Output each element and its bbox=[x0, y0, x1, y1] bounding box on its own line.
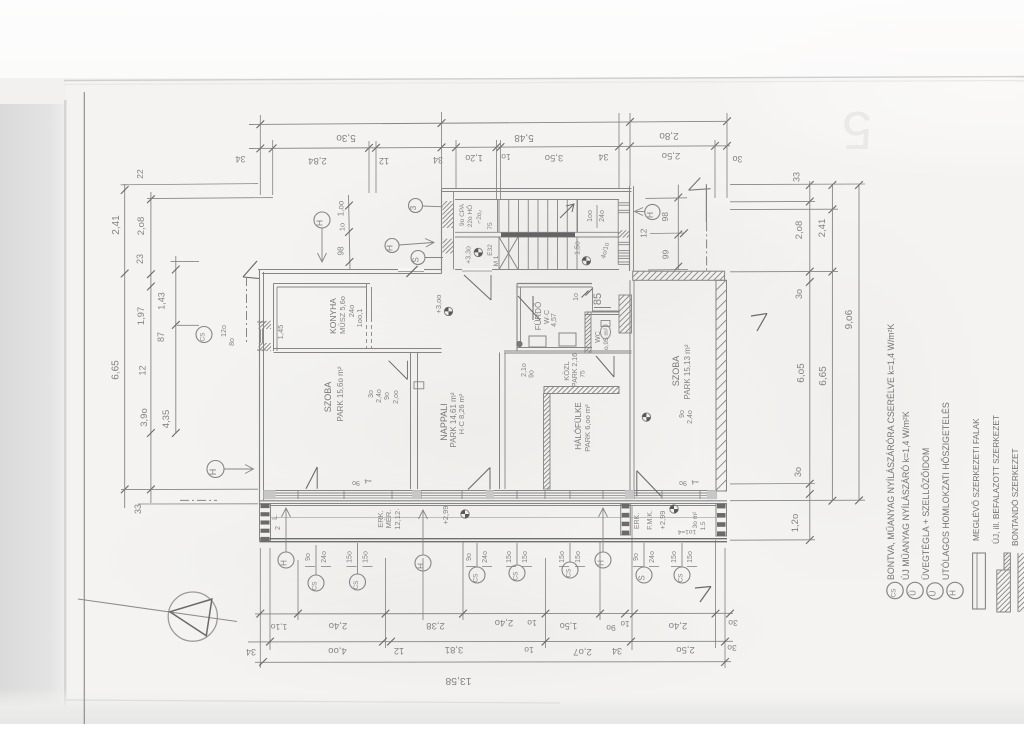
svg-text:=4: =4 bbox=[364, 477, 372, 484]
svg-text:H: H bbox=[949, 590, 958, 596]
bottom dimension row 3 total line bbox=[255, 661, 731, 664]
top dims witness lines bbox=[259, 115, 261, 195]
kitchen inner wall right + dashed opening bbox=[366, 284, 368, 319]
svg-text:S: S bbox=[412, 257, 421, 262]
svg-text:2,41: 2,41 bbox=[111, 215, 122, 235]
svg-text:+3,oo: +3,oo bbox=[434, 295, 443, 314]
svg-text:2,o7: 2,o7 bbox=[573, 646, 592, 657]
dash-dot segment left of balcony bbox=[180, 499, 217, 501]
marker H with right arrow left side bbox=[207, 461, 224, 478]
svg-text:98: 98 bbox=[660, 212, 670, 222]
svg-text:4,35: 4,35 bbox=[161, 410, 172, 429]
right dimension line 1 bbox=[809, 181, 811, 540]
svg-text:CS: CS bbox=[891, 588, 898, 598]
svg-text:1oo: 1oo bbox=[587, 210, 594, 222]
marker CS bottom x357.5 bbox=[350, 574, 366, 590]
svg-text:98: 98 bbox=[337, 246, 346, 255]
level dot stairs left +3,30 bbox=[474, 248, 482, 256]
wall stub below kitchen door bbox=[414, 382, 424, 389]
paper bottom edge shadow bbox=[66, 700, 560, 703]
paper top edge bbox=[64, 77, 1024, 81]
svg-text:2,38: 2,38 bbox=[426, 620, 445, 631]
stair block right wall bbox=[629, 186, 631, 271]
svg-text:H: H bbox=[385, 245, 395, 251]
svg-text:2,oo: 2,oo bbox=[393, 390, 400, 404]
stair bottom door opening and swing bbox=[462, 268, 492, 270]
marker CS bottom x682 bbox=[674, 567, 690, 583]
svg-text:34: 34 bbox=[598, 152, 608, 162]
window mullions bottom band bbox=[297, 490, 299, 499]
section dash-dot line left bbox=[246, 277, 248, 345]
living room right wall bbox=[499, 353, 501, 490]
svg-text:15o: 15o bbox=[671, 551, 678, 563]
svg-text:MÉR.: MÉR. bbox=[384, 510, 393, 529]
svg-text:CS: CS bbox=[312, 581, 319, 591]
balcony mid hatched pier bbox=[621, 504, 631, 535]
svg-text:1o: 1o bbox=[527, 618, 537, 628]
section arrow right-middle bbox=[751, 314, 767, 317]
marker CS bottom x316 bbox=[308, 575, 324, 591]
bottom outer wall edge (double) bbox=[260, 500, 728, 502]
marker H with down arrow near entry bbox=[314, 212, 330, 228]
balcony floor lines bbox=[271, 505, 717, 507]
left dim B ticks bbox=[147, 195, 155, 203]
stair right room labels bbox=[596, 205, 598, 228]
svg-text:15o: 15o bbox=[522, 551, 529, 563]
svg-text:9o: 9o bbox=[529, 370, 536, 378]
stair block top wall bbox=[442, 188, 632, 190]
svg-text:ÜVEGTÉGLA + SZELLŐZŐIDOM: ÜVEGTÉGLA + SZELLŐZŐIDOM bbox=[921, 448, 931, 580]
top-right thick hatched wall band bbox=[633, 271, 725, 280]
stair steps upper flight bbox=[498, 200, 500, 233]
svg-text:6,65: 6,65 bbox=[111, 360, 122, 380]
svg-text:1o: 1o bbox=[573, 293, 580, 301]
svg-text:3o: 3o bbox=[727, 643, 737, 653]
svg-text:15o: 15o bbox=[363, 551, 370, 563]
svg-text:MŰSZ 5,6o: MŰSZ 5,6o bbox=[338, 296, 347, 334]
door triangle nappali-balcony bbox=[468, 468, 490, 490]
legend circle U2 bbox=[927, 583, 943, 599]
marker CS bottom x570 bbox=[562, 562, 578, 578]
north arrow triangle bbox=[170, 599, 212, 636]
marker H bottom x286 bbox=[278, 552, 294, 568]
bottom dimension row 1 line bbox=[255, 612, 733, 615]
marker H bottom x423 bbox=[415, 555, 431, 571]
right outer wall hatched bbox=[716, 280, 727, 491]
svg-text:H: H bbox=[597, 560, 606, 566]
stair right wall door frames bbox=[617, 199, 619, 264]
bathroom door swing bbox=[518, 296, 540, 320]
svg-text:o,95 m²: o,95 m² bbox=[603, 327, 610, 350]
section arrow bottom-middle bbox=[695, 587, 711, 589]
top dim row A ticks bbox=[256, 120, 264, 128]
svg-text:15o: 15o bbox=[506, 551, 513, 563]
svg-text:22: 22 bbox=[135, 169, 145, 179]
svg-text:9o: 9o bbox=[679, 410, 686, 418]
svg-text:2,5o: 2,5o bbox=[662, 150, 681, 161]
svg-text:2,1o: 2,1o bbox=[521, 363, 528, 377]
svg-text:ÚJ, ill. BEFALAZOTT SZERKEZET: ÚJ, ill. BEFALAZOTT SZERKEZET bbox=[991, 415, 1001, 544]
stair direction arrow bbox=[560, 204, 574, 218]
svg-text:2: 2 bbox=[275, 526, 282, 530]
balcony outer edge (dark double) bbox=[260, 538, 728, 540]
svg-text:2,4o: 2,4o bbox=[376, 389, 383, 403]
svg-text:24o: 24o bbox=[482, 551, 489, 563]
top dimension row A line bbox=[249, 121, 727, 124]
svg-text:UTÓLAGOS HOMLOKZATI HŐSZIGETEL: UTÓLAGOS HOMLOKZATI HŐSZIGETELÉS bbox=[941, 402, 951, 580]
svg-text:75: 75 bbox=[487, 222, 494, 230]
door triangle szoba-balcony bbox=[306, 467, 317, 489]
svg-text:34: 34 bbox=[612, 646, 622, 656]
svg-text:13,58: 13,58 bbox=[445, 675, 471, 687]
svg-text:9o: 9o bbox=[679, 479, 687, 486]
svg-text:34: 34 bbox=[246, 647, 256, 657]
marker CS bottom x517 bbox=[509, 565, 525, 581]
legend circle CS bbox=[887, 582, 903, 598]
svg-text:HÁLÓFÜLKE: HÁLÓFÜLKE bbox=[574, 402, 583, 450]
svg-text:99: 99 bbox=[661, 250, 671, 260]
stair landing dark band bbox=[501, 233, 575, 237]
svg-text:3o: 3o bbox=[793, 467, 803, 477]
top dimension row B line bbox=[249, 146, 730, 149]
svg-text:9o CPA: 9o CPA bbox=[459, 203, 466, 226]
svg-text:9o: 9o bbox=[352, 479, 360, 486]
section mark top-right 4-shape bbox=[689, 178, 701, 191]
drawing frame left border line bbox=[83, 92, 85, 724]
svg-text:85: 85 bbox=[592, 293, 604, 305]
kitchen bottom wall bbox=[274, 348, 442, 350]
svg-text:3,9o: 3,9o bbox=[139, 408, 150, 427]
svg-text:2,5o: 2,5o bbox=[676, 644, 695, 655]
svg-text:34: 34 bbox=[235, 154, 245, 164]
bottom window band sill lines bbox=[264, 490, 717, 492]
balcony right hatched pier bbox=[716, 504, 727, 536]
svg-text:Ü: Ü bbox=[929, 590, 938, 596]
svg-text:87: 87 bbox=[156, 332, 166, 342]
svg-text:PARK 15,13 m²: PARK 15,13 m² bbox=[683, 344, 692, 399]
svg-text:L.: L. bbox=[272, 514, 279, 520]
svg-text:FÜRDŐ: FÜRDŐ bbox=[534, 302, 543, 330]
svg-text:2,4o: 2,4o bbox=[687, 410, 694, 424]
svg-text:15o: 15o bbox=[559, 551, 566, 563]
left dimension line B bbox=[150, 192, 152, 503]
svg-text:CS: CS bbox=[566, 568, 573, 578]
kitchen inner wall top bbox=[274, 283, 371, 285]
hatched band right of wc bbox=[619, 295, 632, 333]
svg-text:1,5o: 1,5o bbox=[560, 621, 578, 631]
stair steps lower flight bbox=[498, 237, 500, 270]
svg-text:NAPPALI: NAPPALI bbox=[439, 403, 449, 440]
svg-text:H·C 8,26 m²: H·C 8,26 m² bbox=[457, 393, 466, 434]
svg-text:24o: 24o bbox=[321, 551, 328, 563]
double tick on bathroom top wall bbox=[582, 291, 589, 298]
svg-text:H: H bbox=[315, 220, 325, 226]
section mark top-left corner bbox=[243, 261, 257, 277]
svg-text:5: 5 bbox=[842, 100, 872, 160]
bathroom upper-right niche lines bbox=[592, 287, 594, 311]
marker circle 3 upper bbox=[409, 199, 423, 213]
svg-text:1,oo: 1,oo bbox=[337, 200, 346, 216]
corridor bottom hatched wall band bbox=[544, 387, 619, 394]
svg-text:1o: 1o bbox=[338, 223, 347, 231]
level dot balcony right +2,99 bbox=[670, 505, 678, 513]
svg-text:5,3o: 5,3o bbox=[336, 132, 356, 143]
svg-text:PARK 6,oo m²: PARK 6,oo m² bbox=[583, 404, 592, 452]
svg-text:1,2o: 1,2o bbox=[790, 514, 801, 533]
svg-text:6,65: 6,65 bbox=[818, 366, 829, 386]
north arrow circle bbox=[168, 592, 217, 641]
svg-text:4,oo: 4,oo bbox=[328, 645, 347, 656]
bottom dim row 1 ticks bbox=[256, 610, 264, 618]
svg-text:22o HŐ: 22o HŐ bbox=[465, 205, 474, 227]
bottom dims witness lines bbox=[259, 548, 261, 668]
svg-text:24o: 24o bbox=[649, 551, 656, 563]
svg-text:12: 12 bbox=[379, 156, 389, 166]
svg-text:⌐2o٫: ⌐2o٫ bbox=[476, 210, 483, 224]
bottom dim row 3 ticks bbox=[259, 658, 267, 666]
svg-text:9o: 9o bbox=[305, 553, 312, 561]
svg-text:MEGLÉVŐ SZERKEZETI FALAK: MEGLÉVŐ SZERKEZETI FALAK bbox=[971, 418, 981, 541]
svg-text:1oo,1: 1oo,1 bbox=[355, 309, 364, 328]
stair left room wall bbox=[497, 200, 499, 233]
svg-text:Ú: Ú bbox=[909, 590, 918, 596]
svg-text:1,1o: 1,1o bbox=[270, 622, 287, 632]
svg-text:H: H bbox=[208, 469, 218, 476]
marker CS left with connector bbox=[196, 327, 212, 343]
outer wall top of left block (double) bbox=[258, 269, 442, 271]
stair flight edges bbox=[455, 199, 619, 201]
svg-text:1,5o: 1,5o bbox=[575, 241, 582, 255]
svg-text:8o: 8o bbox=[229, 338, 236, 346]
svg-text:PARK 2,16: PARK 2,16 bbox=[572, 353, 579, 387]
bathtub fixture bbox=[529, 336, 546, 347]
washbasin fixture bbox=[559, 333, 576, 346]
marker circle S bbox=[411, 251, 425, 265]
entry door opening + tick on top wall bbox=[398, 268, 424, 271]
svg-text:75: 75 bbox=[580, 370, 587, 378]
svg-text:2,4o: 2,4o bbox=[495, 617, 514, 628]
svg-text:1o: 1o bbox=[501, 152, 511, 162]
svg-text:6,o5: 6,o5 bbox=[796, 363, 807, 383]
section dash-dot line right bbox=[706, 222, 708, 271]
door triangle szoba right-balcony bbox=[636, 471, 638, 497]
right dim 2 ticks bbox=[829, 181, 837, 189]
balcony left hatched pier bbox=[260, 504, 271, 541]
svg-text:4,57: 4,57 bbox=[551, 313, 558, 327]
window band piers bbox=[264, 490, 276, 499]
legend sample strip new wall hatched bbox=[997, 570, 1011, 612]
right dims witness lines bbox=[730, 183, 865, 186]
alcove hatched left wall bbox=[544, 394, 551, 490]
right dim 3 ticks bbox=[855, 181, 863, 189]
svg-text:9o: 9o bbox=[606, 623, 616, 633]
left dims witness lines bbox=[121, 184, 258, 185]
svg-text:15o: 15o bbox=[687, 551, 694, 563]
svg-text:KÖZL: KÖZL bbox=[562, 361, 571, 381]
marker H bottom x603 bbox=[595, 552, 611, 568]
right dimension line 2 bbox=[831, 184, 833, 501]
svg-text:12: 12 bbox=[138, 365, 148, 375]
kitchen exit door swing bbox=[389, 361, 408, 380]
svg-text:3o: 3o bbox=[732, 154, 742, 164]
level dot corridor bbox=[642, 413, 650, 421]
svg-text:3: 3 bbox=[409, 205, 418, 210]
svg-text:9o: 9o bbox=[384, 392, 391, 400]
svg-text:5,48: 5,48 bbox=[514, 132, 534, 143]
level dot balcony left +2,99 bbox=[461, 510, 469, 518]
svg-text:12: 12 bbox=[394, 646, 404, 656]
svg-text:CS: CS bbox=[353, 580, 360, 590]
svg-text:3,81: 3,81 bbox=[445, 644, 464, 655]
svg-text:3o: 3o bbox=[368, 390, 375, 398]
svg-text:2,4o: 2,4o bbox=[329, 620, 348, 631]
svg-text:KONYHA: KONYHA bbox=[328, 298, 338, 334]
svg-text:ERK.: ERK. bbox=[634, 513, 641, 529]
svg-text:3o m²: 3o m² bbox=[692, 511, 699, 528]
svg-text:CS: CS bbox=[678, 573, 685, 583]
svg-text:15o: 15o bbox=[575, 551, 582, 563]
stair right room wall bbox=[577, 200, 579, 233]
legend sample strip existing wall bbox=[973, 553, 986, 609]
svg-text:=4: =4 bbox=[691, 478, 699, 485]
svg-text:33: 33 bbox=[792, 172, 802, 182]
stair cross at flight start bbox=[499, 237, 518, 270]
bathroom floor drain dot bbox=[517, 341, 522, 346]
right dim 1 ticks bbox=[806, 181, 814, 189]
svg-text:+2,99: +2,99 bbox=[658, 511, 667, 530]
svg-text:2,o8: 2,o8 bbox=[794, 221, 805, 240]
svg-text:24o: 24o bbox=[599, 210, 606, 222]
svg-text:BONTVA, MŰANYAG NYÍLÁSZÁRÓRA C: BONTVA, MŰANYAG NYÍLÁSZÁRÓRA CSERÉLVE k=… bbox=[886, 323, 896, 580]
svg-text:1o: 1o bbox=[524, 645, 534, 655]
legend sample strip demolish bbox=[1017, 553, 1019, 612]
left dim A ticks bbox=[121, 186, 129, 194]
svg-text:E32: E32 bbox=[487, 244, 494, 256]
svg-text:3o: 3o bbox=[728, 618, 738, 628]
svg-text:2,84: 2,84 bbox=[308, 155, 327, 166]
svg-text:2,41: 2,41 bbox=[817, 219, 828, 238]
legend circle H bbox=[947, 582, 963, 598]
marker H with left arrow top-right bbox=[645, 204, 660, 219]
divider wall szoba right bbox=[629, 280, 631, 498]
svg-text:12o: 12o bbox=[221, 325, 228, 337]
kitchen inner wall left bbox=[273, 284, 275, 352]
svg-text:ÚJ MŰANYAG NYÍLÁSZÁRÓ k=1,4 W: ÚJ MŰANYAG NYÍLÁSZÁRÓ k=1,4 W/m²K bbox=[901, 411, 911, 580]
svg-text:15o: 15o bbox=[347, 551, 354, 563]
svg-text:S: S bbox=[638, 575, 647, 580]
marker S bottom x644 bbox=[636, 567, 652, 583]
room divider wall szoba/nappali bbox=[410, 353, 412, 490]
corridor to alcove door swing bbox=[596, 356, 614, 377]
svg-text:2,o8: 2,o8 bbox=[136, 217, 147, 236]
svg-text:SZOBA: SZOBA bbox=[671, 356, 681, 387]
left dim C ticks bbox=[172, 266, 180, 274]
svg-text:WC: WC bbox=[595, 331, 602, 343]
svg-text:12: 12 bbox=[639, 228, 649, 238]
stair block left wall with hatched piers bbox=[441, 189, 443, 274]
svg-text:2,4o: 2,4o bbox=[669, 620, 688, 631]
svg-text:F.M.K.: F.M.K. bbox=[647, 510, 654, 530]
svg-text:1,97: 1,97 bbox=[136, 307, 147, 326]
svg-text:1,43: 1,43 bbox=[157, 292, 167, 310]
top dim row B ticks bbox=[256, 145, 264, 153]
svg-text:9o: 9o bbox=[633, 553, 640, 561]
interior dim line x678 bbox=[677, 185, 679, 270]
svg-text:H: H bbox=[645, 212, 655, 218]
svg-text:3,5o: 3,5o bbox=[545, 152, 564, 163]
svg-text:+2,99: +2,99 bbox=[441, 506, 450, 525]
marker CS bottom x477 bbox=[469, 567, 485, 583]
svg-text:9o: 9o bbox=[466, 553, 473, 561]
svg-text:23: 23 bbox=[135, 254, 145, 264]
svg-text:BONTANDÓ SZERKEZET: BONTANDÓ SZERKEZET bbox=[1010, 448, 1020, 546]
svg-text:2,8o: 2,8o bbox=[659, 130, 679, 141]
level dot +3,00 entry bbox=[444, 307, 452, 315]
svg-text:+3,3o: +3,3o bbox=[466, 246, 473, 264]
svg-text:H: H bbox=[417, 563, 426, 569]
svg-text:1,5: 1,5 bbox=[700, 521, 707, 530]
svg-text:CS: CS bbox=[513, 571, 520, 581]
svg-text:SZOBA: SZOBA bbox=[323, 382, 333, 413]
outer wall left (double) bbox=[259, 270, 261, 504]
wc fixture bbox=[601, 325, 611, 339]
bottom dimension row 2 line bbox=[248, 640, 733, 643]
svg-text:33: 33 bbox=[133, 504, 143, 514]
svg-text:CS: CS bbox=[473, 573, 480, 583]
left dimension line A bbox=[124, 184, 126, 508]
svg-text:CS: CS bbox=[200, 332, 207, 342]
svg-text:1o: 1o bbox=[620, 619, 629, 628]
right dimension line 3 bbox=[858, 185, 860, 500]
level dot stairs right bbox=[582, 257, 590, 265]
svg-text:H: H bbox=[280, 560, 289, 566]
svg-text:12,12·: 12,12· bbox=[393, 508, 402, 529]
corridor top line bbox=[504, 350, 632, 352]
svg-text:1,45: 1,45 bbox=[276, 325, 285, 340]
svg-text:M 1: M 1 bbox=[493, 255, 500, 266]
bathroom walls bbox=[517, 283, 592, 285]
svg-text:3o: 3o bbox=[794, 289, 804, 299]
bottom dim row 2 ticks bbox=[266, 638, 274, 646]
left dimension line C bbox=[175, 256, 177, 433]
svg-text:9,o6: 9,o6 bbox=[844, 309, 855, 329]
svg-text:PARK 15,6o m²: PARK 15,6o m² bbox=[336, 366, 345, 421]
legend circle U bbox=[907, 582, 923, 598]
svg-text:1,2o: 1,2o bbox=[465, 153, 483, 163]
marker H with right arrow at stairs bbox=[385, 239, 399, 253]
svg-text:W·C: W·C bbox=[544, 310, 551, 324]
interior dim line x349 bbox=[349, 195, 351, 270]
north arrow long line bbox=[78, 599, 237, 622]
